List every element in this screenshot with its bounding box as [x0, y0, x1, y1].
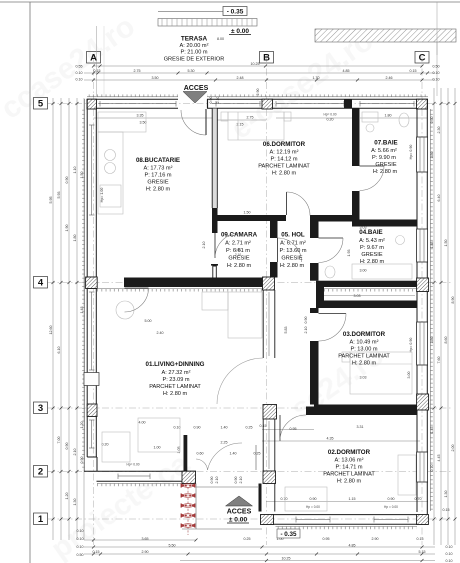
svg-text:0.15: 0.15	[93, 550, 100, 554]
dorm3 top wall	[316, 301, 417, 309]
svg-text:2.00: 2.00	[451, 445, 455, 452]
svg-text:Hp= 0.00: Hp= 0.00	[323, 113, 336, 117]
svg-text:1.40: 1.40	[230, 452, 237, 456]
svg-text:0.95: 0.95	[323, 537, 330, 541]
svg-text:1.50: 1.50	[244, 210, 251, 214]
living opening arc	[217, 358, 263, 404]
svg-text:2.75: 2.75	[134, 69, 141, 73]
svg-text:P: 14.71 m: P: 14.71 m	[335, 465, 362, 471]
kitchen counter + sink + stove	[98, 132, 123, 214]
right wall window blocks	[417, 137, 428, 482]
svg-text:P: 9.67 m: P: 9.67 m	[360, 245, 384, 251]
svg-text:2.90: 2.90	[142, 550, 149, 554]
baie4 door	[319, 237, 344, 239]
svg-text:7.00: 7.00	[57, 437, 61, 444]
svg-text:0.10: 0.10	[446, 559, 453, 563]
svg-text:A: 12.19 m²: A: 12.19 m²	[270, 150, 299, 156]
svg-text:06.DORMITOR: 06.DORMITOR	[263, 141, 306, 148]
svg-text:2.10: 2.10	[239, 477, 243, 484]
svg-text:A: 6.71 m²: A: 6.71 m²	[280, 241, 306, 247]
svg-text:TERASA: TERASA	[181, 36, 208, 43]
V4 dorm6/baie7 wall	[352, 109, 360, 167]
svg-text:GRESIE: GRESIE	[281, 256, 302, 262]
svg-text:P: 9.90 m: P: 9.90 m	[372, 155, 396, 161]
svg-text:5.95: 5.95	[49, 197, 53, 204]
svg-text:2.10: 2.10	[215, 477, 219, 484]
svg-text:5.50: 5.50	[169, 543, 176, 547]
svg-text:0.10: 0.10	[77, 545, 84, 549]
svg-text:A: 27.32 m²: A: 27.32 m²	[162, 370, 191, 376]
left dim lines	[52, 98, 54, 540]
svg-text:09.CAMARA: 09.CAMARA	[221, 232, 258, 239]
svg-text:0.25: 0.25	[244, 537, 251, 541]
grid bubbles	[34, 52, 430, 526]
svg-text:- 0.35: - 0.35	[227, 9, 244, 16]
svg-text:4.35: 4.35	[327, 436, 334, 440]
dorm6 bed	[228, 112, 284, 140]
porch step outline	[182, 484, 262, 530]
svg-text:8.90: 8.90	[451, 297, 455, 304]
svg-text:P: 21.00 m: P: 21.00 m	[180, 50, 207, 56]
svg-text:0.15: 0.15	[443, 508, 450, 512]
svg-text:0.95: 0.95	[290, 427, 297, 431]
svg-text:A: 5.43 m²: A: 5.43 m²	[359, 238, 385, 244]
svg-text:2.46: 2.46	[386, 76, 393, 80]
hatched band top right	[315, 29, 456, 42]
svg-text:0.20: 0.20	[327, 118, 334, 122]
svg-text:0.70: 0.70	[415, 497, 422, 501]
svg-text:± 0.00: ± 0.00	[231, 28, 249, 35]
svg-text:4.45: 4.45	[437, 455, 441, 462]
hol door V5	[278, 238, 302, 262]
right wall piers	[417, 278, 429, 292]
top dim lines	[94, 65, 423, 67]
svg-text:A: 10.49 m²: A: 10.49 m²	[350, 340, 379, 346]
svg-text:Hp= 0.90: Hp= 0.90	[409, 145, 413, 160]
svg-text:2.10: 2.10	[202, 242, 206, 249]
svg-text:- 0.35: - 0.35	[280, 531, 297, 538]
small interior dim rows	[266, 501, 428, 503]
acces bottom	[226, 496, 253, 506]
dorm3 bottom wall	[314, 405, 417, 416]
svg-text:0.10: 0.10	[446, 552, 453, 556]
svg-text:B: B	[263, 53, 270, 64]
dorm6 door	[286, 192, 288, 215]
svg-text:0.90: 0.90	[65, 443, 69, 450]
svg-text:3.65: 3.65	[142, 537, 149, 541]
exterior contour tick lines	[85, 97, 431, 511]
svg-text:0.90: 0.90	[209, 97, 213, 104]
svg-text:1.20: 1.20	[65, 493, 69, 500]
svg-text:GRESIE: GRESIE	[361, 252, 382, 258]
svg-text:Hp= 1.00: Hp= 1.00	[100, 188, 104, 203]
svg-text:2.10: 2.10	[73, 449, 77, 456]
svg-text:A: 17.73 m²: A: 17.73 m²	[144, 166, 173, 172]
living porch doors	[208, 443, 243, 470]
svg-text:5.93: 5.93	[57, 192, 61, 199]
svg-text:5.00: 5.00	[145, 319, 152, 323]
svg-text:GRESIE DE EXTERIOR: GRESIE DE EXTERIOR	[164, 57, 225, 63]
svg-text:0.10: 0.10	[446, 545, 453, 549]
svg-text:0.10: 0.10	[77, 537, 84, 541]
H1 wall (camara/hol top)	[216, 215, 286, 221]
row4 wall right segment (baie4 bottom)	[316, 281, 417, 287]
living terrace thin walls	[184, 435, 188, 471]
svg-text:H: 2.80 m: H: 2.80 m	[272, 171, 297, 177]
svg-text:01.LIVING+DINNING: 01.LIVING+DINNING	[146, 361, 205, 368]
baie7 fixtures	[362, 112, 378, 122]
svg-text:3.03: 3.03	[360, 376, 367, 380]
svg-text:2.75: 2.75	[247, 115, 254, 119]
svg-text:5.15: 5.15	[419, 550, 426, 554]
svg-text:1.00: 1.00	[154, 446, 161, 450]
terasa side edges	[96, 26, 98, 96]
svg-text:1.15: 1.15	[349, 497, 356, 501]
svg-text:3.31: 3.31	[357, 425, 364, 429]
svg-text:ACCES: ACCES	[227, 509, 252, 516]
svg-text:1.93: 1.93	[347, 250, 351, 257]
svg-text:10.25: 10.25	[282, 557, 291, 561]
svg-text:P: 17.16 m: P: 17.16 m	[144, 173, 171, 179]
svg-text:0.10: 0.10	[174, 425, 181, 429]
svg-text:1.10: 1.10	[73, 167, 77, 174]
svg-text:3: 3	[38, 403, 43, 414]
svg-text:4.00: 4.00	[139, 421, 146, 425]
svg-text:3.00: 3.00	[360, 269, 367, 273]
svg-text:6.10: 6.10	[57, 347, 61, 354]
svg-text:H: 2.80 m: H: 2.80 m	[360, 259, 385, 265]
svg-text:A: A	[90, 53, 97, 64]
frame	[0, 1, 460, 3]
dorm2 door	[279, 415, 281, 441]
baie7 door	[360, 165, 385, 167]
svg-text:08.BUCATARIE: 08.BUCATARIE	[136, 157, 180, 164]
svg-text:0.50: 0.50	[77, 553, 84, 557]
svg-text:0.70: 0.70	[281, 497, 288, 501]
svg-text:3.00: 3.00	[407, 372, 411, 379]
top exterior wall	[87, 99, 428, 108]
svg-text:5.30: 5.30	[188, 69, 195, 73]
svg-text:A: 20.00 m²: A: 20.00 m²	[180, 43, 209, 49]
svg-text:P: 13.00 m: P: 13.00 m	[350, 347, 377, 353]
svg-text:1.90: 1.90	[65, 225, 69, 232]
right rotated labels	[430, 117, 455, 498]
svg-text:8.60: 8.60	[444, 337, 448, 344]
svg-text:0.90: 0.90	[304, 317, 308, 324]
svg-text:ACCES: ACCES	[184, 85, 209, 92]
left exterior wall	[87, 99, 97, 471]
row4 wall left segment	[124, 278, 264, 288]
top wall piers	[87, 99, 97, 109]
svg-text:H: 2.80 m: H: 2.80 m	[280, 263, 305, 269]
svg-text:1.80: 1.80	[385, 113, 392, 117]
svg-text:0.25: 0.25	[254, 452, 261, 456]
svg-text:2: 2	[38, 467, 43, 478]
svg-text:0.10: 0.10	[433, 78, 440, 82]
svg-text:GRESIE: GRESIE	[147, 180, 168, 186]
svg-text:0.10: 0.10	[76, 71, 83, 75]
svg-text:Hp = 0.00: Hp = 0.00	[384, 505, 398, 509]
dorm3 bed	[350, 352, 412, 394]
svg-text:6.40: 6.40	[437, 195, 441, 202]
svg-text:P: 13.60 m: P: 13.60 m	[279, 248, 306, 254]
svg-text:8.00: 8.00	[217, 37, 224, 41]
svg-text:Hp= 0.00: Hp= 0.00	[126, 463, 139, 467]
bottom dim lines	[84, 539, 196, 541]
svg-text:3.35: 3.35	[137, 113, 144, 117]
svg-text:1.70: 1.70	[313, 76, 320, 80]
svg-text:3.03: 3.03	[354, 294, 361, 298]
svg-text:0.15: 0.15	[417, 537, 424, 541]
entrance door	[205, 109, 207, 135]
svg-text:0.10: 0.10	[77, 529, 84, 533]
svg-text:7.60: 7.60	[437, 357, 441, 364]
svg-text:0.90: 0.90	[210, 477, 214, 484]
svg-text:A: 13.06 m²: A: 13.06 m²	[335, 458, 364, 464]
svg-text:0.90: 0.90	[388, 497, 395, 501]
svg-text:P: 23.09 m: P: 23.09 m	[162, 377, 189, 383]
svg-text:10.25: 10.25	[251, 62, 260, 66]
trotuar ticks	[97, 289, 417, 527]
svg-text:1: 1	[38, 514, 44, 525]
right dim lines	[433, 88, 435, 545]
svg-text:2.10: 2.10	[216, 97, 220, 104]
svg-text:0.90: 0.90	[234, 477, 238, 484]
svg-text:2.10: 2.10	[304, 327, 308, 334]
V5 camara/hol wall	[270, 221, 278, 238]
left wall piers	[87, 277, 97, 289]
V7 hol/dorm3 wall	[310, 308, 319, 313]
svg-text:1.05: 1.05	[177, 447, 181, 454]
svg-text:H: 2.80 m: H: 2.80 m	[163, 391, 188, 397]
svg-text:05. HOL: 05. HOL	[281, 232, 305, 239]
svg-text:5: 5	[38, 99, 44, 110]
svg-text:2.48: 2.48	[237, 76, 244, 80]
svg-text:0.10: 0.10	[433, 71, 440, 75]
svg-text:2.25: 2.25	[221, 441, 228, 445]
svg-text:3.50: 3.50	[140, 121, 147, 125]
svg-text:P: 14.12 m: P: 14.12 m	[270, 157, 297, 163]
left wall windows	[89, 125, 95, 448]
camara door	[214, 233, 216, 258]
svg-text:PARCHET LAMINAT: PARCHET LAMINAT	[338, 354, 390, 360]
svg-text:03.DORMITOR: 03.DORMITOR	[343, 331, 386, 338]
right exterior wall	[417, 99, 427, 525]
svg-text:4: 4	[38, 278, 44, 289]
svg-text:5.83: 5.83	[284, 327, 288, 334]
svg-text:A: 5.66 m²: A: 5.66 m²	[371, 148, 397, 154]
svg-text:2.90: 2.90	[372, 537, 379, 541]
svg-text:3.50: 3.50	[152, 76, 159, 80]
left wall sill block	[84, 373, 99, 386]
svg-text:2.15: 2.15	[237, 123, 244, 127]
svg-text:0.15: 0.15	[94, 69, 101, 73]
svg-text:A: 2.71 m²: A: 2.71 m²	[225, 241, 251, 247]
-0.35 bottom label	[277, 529, 300, 538]
svg-text:04.BAIE: 04.BAIE	[359, 229, 382, 236]
svg-text:07.BAIE: 07.BAIE	[374, 140, 397, 147]
terasa step band	[158, 19, 257, 27]
svg-text:1.80: 1.80	[73, 235, 77, 242]
svg-text:± 0.00: ± 0.00	[229, 517, 248, 524]
svg-text:GRESIE: GRESIE	[228, 256, 249, 262]
top wall window glazing	[99, 101, 415, 107]
baie4 fixtures	[352, 264, 412, 279]
svg-text:0.90: 0.90	[310, 497, 317, 501]
svg-text:0.25: 0.25	[246, 425, 253, 429]
svg-text:P: 6.61 m: P: 6.61 m	[226, 248, 250, 254]
svg-text:12.60: 12.60	[49, 326, 53, 335]
dorm3 door	[319, 313, 347, 315]
svg-text:Hp = 0.00: Hp = 0.00	[306, 505, 320, 509]
svg-text:H: 2.80 m: H: 2.80 m	[227, 263, 252, 269]
svg-text:PARCHET LAMINAT: PARCHET LAMINAT	[149, 384, 201, 390]
bottom wall dorm2	[262, 515, 428, 525]
svg-text:GRESIE: GRESIE	[375, 162, 396, 168]
ticks	[52, 65, 457, 563]
svg-text:02.DORMITOR: 02.DORMITOR	[328, 449, 371, 456]
svg-text:4.85: 4.85	[343, 69, 350, 73]
svg-text:PARCHET LAMINAT: PARCHET LAMINAT	[258, 164, 310, 170]
-0.35 label box	[158, 11, 223, 13]
V3 hol/baie4 wall	[310, 221, 319, 238]
svg-text:H: 2.80 m: H: 2.80 m	[352, 361, 377, 367]
svg-text:0.10: 0.10	[76, 78, 83, 82]
living sofa + table	[228, 292, 262, 338]
V1 kitchen right wall	[212, 109, 217, 209]
svg-text:H: 2.80 m: H: 2.80 m	[373, 169, 398, 175]
bottom wall living	[84, 471, 196, 481]
svg-text:0.50: 0.50	[433, 65, 440, 69]
svg-text:PARCHET LAMINAT: PARCHET LAMINAT	[323, 472, 375, 478]
svg-text:2.40: 2.40	[157, 331, 164, 335]
svg-text:1.30: 1.30	[444, 491, 448, 498]
svg-text:H: 2.80 m: H: 2.80 m	[337, 479, 362, 485]
svg-text:0.15: 0.15	[410, 69, 417, 73]
svg-text:2.30: 2.30	[437, 127, 441, 134]
dorm2 furniture	[285, 487, 327, 511]
svg-text:4.85: 4.85	[349, 543, 356, 547]
svg-text:H: 2.80 m: H: 2.80 m	[146, 187, 171, 193]
svg-text:C: C	[419, 53, 426, 64]
svg-text:0.90: 0.90	[194, 425, 201, 429]
kitchen door (row4)	[125, 287, 149, 289]
svg-text:0.60: 0.60	[197, 452, 204, 456]
red drainage marks	[181, 484, 195, 536]
svg-text:0.20: 0.20	[102, 443, 109, 447]
left rotated labels	[49, 167, 84, 506]
svg-text:1.50: 1.50	[444, 240, 448, 247]
svg-text:Hp= 0.90: Hp= 0.90	[409, 338, 413, 353]
B wall lower windows	[263, 290, 275, 471]
svg-text:0.55: 0.55	[76, 65, 83, 69]
svg-text:0.90: 0.90	[65, 177, 69, 184]
svg-text:1.40: 1.40	[221, 425, 228, 429]
svg-text:1.30: 1.30	[73, 499, 77, 506]
